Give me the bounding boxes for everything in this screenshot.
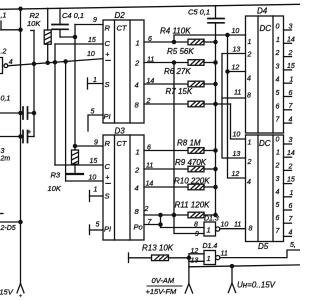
wire +15V vertical (x=20.5, rail to bottom arrow) (20, 9, 22, 284)
connector arrow 0V-AM/+15V-FM (185, 284, 192, 294)
svg-text:14: 14 (147, 78, 155, 85)
capacitor C1 0,1 (left edge) (0, 112, 23, 114)
svg-text:3: 3 (276, 63, 280, 70)
svg-text:+15V-FM: +15V-FM (146, 287, 178, 296)
svg-text:+: + (105, 52, 109, 59)
node R13/D1.4 inputs junction (187, 256, 190, 259)
svg-text:1: 1 (290, 77, 294, 84)
svg-text:1: 1 (276, 150, 280, 157)
svg-text:6: 6 (147, 145, 151, 152)
resistor R2 (47, 8, 49, 30)
svg-text:14: 14 (146, 181, 154, 188)
node Uh branch junction (230, 265, 233, 268)
svg-text:PI: PI (104, 112, 111, 121)
resistor R8 (188, 148, 204, 154)
gate D1.3 (204, 222, 216, 236)
node C4/reset junction (73, 35, 76, 38)
node C1 right lead junction (32, 111, 35, 114)
svg-text:8: 8 (247, 93, 251, 100)
svg-text:2: 2 (144, 206, 149, 213)
svg-text:2: 2 (247, 52, 252, 59)
D2 +/- pin tick (106, 59, 111, 61)
svg-text:R8 1M: R8 1M (177, 138, 201, 147)
IC D4 decoder box (246, 16, 284, 133)
svg-text:+15V: +15V (0, 288, 14, 297)
D5 output stubs pins 3,14,2,15,1,6,7,4 (284, 143, 292, 145)
wire jog to D4 input 1 (174, 35, 246, 42)
resistor R6 (188, 81, 204, 87)
svg-text:10: 10 (221, 221, 229, 228)
wire D2 pin S stub with T-bar (87, 78, 89, 89)
wire C4 to reset line (60, 36, 75, 38)
svg-text:R: R (105, 24, 111, 33)
svg-text:Uн=0..15V: Uн=0..15V (237, 281, 276, 290)
svg-text:13: 13 (233, 151, 241, 158)
wire D3 output 4 (pin 14) row (144, 186, 188, 188)
wire D3 pin +/- feed (66, 180, 103, 182)
connector arrow +15V (17, 284, 24, 293)
svg-text:2: 2 (134, 59, 140, 68)
svg-text:9: 9 (195, 231, 199, 238)
svg-text:10: 10 (232, 28, 240, 35)
label fragment tick at left edge (0, 213, 3, 215)
wire summing bus vertical (x=215.5) (215, 24, 217, 215)
resistor R11 (188, 212, 204, 218)
wire D1.2 output to D2 +/- pin (8, 59, 103, 66)
wire gate feed vertical (x=174) to D1.3 input 9 (174, 63, 204, 234)
svg-text:14: 14 (287, 150, 295, 157)
wire D2 pin R feed (75, 24, 103, 26)
resistor R4 (188, 39, 204, 45)
ground bar under R3 (67, 173, 83, 175)
svg-text:R13 10K: R13 10K (142, 243, 174, 252)
svg-text:10: 10 (87, 51, 95, 58)
node C1 left lead junction (19, 111, 22, 114)
svg-text:1: 1 (290, 190, 294, 197)
svg-text:2: 2 (134, 166, 140, 175)
svg-text:R4 110K: R4 110K (160, 27, 191, 36)
svg-text:2-D5: 2-D5 (0, 225, 16, 232)
svg-text:9: 9 (93, 17, 97, 24)
node D2.2/gate line junction (172, 61, 175, 64)
node rail/+15V junction (19, 7, 22, 10)
svg-text:C: C (105, 162, 111, 171)
gate D1.1 (cut off at left edge) (0, 21, 2, 30)
wire D2 pin C feed (55, 43, 103, 45)
svg-text:0: 0 (276, 137, 280, 144)
svg-text:S: S (105, 192, 110, 201)
inverter bubble of D1.2 (4, 64, 8, 68)
resistor R9 (188, 166, 204, 172)
svg-text:10: 10 (89, 175, 97, 182)
wire D1.3 output to D5 input 8 (220, 228, 246, 230)
wire fork to D1.4 input 12 (189, 254, 204, 258)
svg-text:14: 14 (287, 37, 295, 44)
svg-text:0,1: 0,1 (1, 96, 11, 103)
capacitor C4 (59, 8, 61, 24)
node out8 row crossing junction (172, 213, 175, 216)
svg-text:11: 11 (147, 57, 154, 64)
wire D2 output 1 (pin 6) row (144, 41, 188, 43)
wire D3 output Po (pin 7) (144, 224, 161, 226)
wire D1.4 output to right edge (pin 5) (220, 250, 300, 258)
wire D3 up/down vertical (x=65.6) (65, 62, 67, 182)
svg-text:0V-AM: 0V-AM (152, 276, 175, 285)
svg-text:2: 2 (288, 50, 293, 57)
node C3 left lead junction (19, 135, 22, 138)
svg-text:R3: R3 (51, 171, 61, 180)
wire to D1.3 input 8 (161, 215, 205, 228)
svg-text:4: 4 (276, 189, 280, 196)
wire D3 pin C feed (55, 164, 103, 166)
svg-text:R5 56K: R5 56K (167, 47, 194, 56)
svg-text:3: 3 (289, 137, 293, 144)
wire reset line vertical (x=75) (74, 25, 76, 151)
resistor R10 (188, 184, 204, 190)
svg-text:11: 11 (234, 221, 241, 228)
svg-text:11: 11 (146, 163, 153, 170)
svg-text:2m: 2m (0, 156, 10, 163)
svg-text:6: 6 (289, 90, 293, 97)
svg-text:C4 0,1: C4 0,1 (62, 11, 84, 20)
svg-text:3: 3 (276, 176, 280, 183)
svg-text:4: 4 (135, 81, 139, 90)
node bus/R11 junction (214, 213, 217, 216)
svg-text:4: 4 (247, 76, 251, 83)
wire "2-D5" power branch (0, 221, 21, 223)
wire D3 pin S stub with T-bar (89, 191, 91, 202)
svg-text:1: 1 (207, 254, 211, 263)
svg-text:5: 5 (276, 90, 280, 97)
svg-text:10K: 10K (27, 19, 41, 28)
svg-text:1: 1 (207, 226, 211, 235)
node bus/R9 junction (214, 167, 217, 170)
svg-text:12: 12 (191, 248, 199, 255)
wire D3 output 2 (pin 11) row (144, 168, 188, 170)
svg-text:R7 15K: R7 15K (166, 87, 193, 96)
svg-text:C: C (105, 39, 111, 48)
svg-text:Po: Po (134, 223, 143, 232)
node out8 row / in8 feed junction (159, 213, 162, 216)
svg-text:+: + (27, 129, 31, 136)
svg-text:6: 6 (148, 36, 152, 43)
svg-text:15: 15 (287, 63, 295, 70)
svg-text:13: 13 (233, 47, 241, 54)
connector arrow Uh output (228, 283, 235, 293)
svg-text:5: 5 (276, 202, 280, 209)
svg-text:0: 0 (276, 24, 280, 31)
wire D2 output 2 (pin 11) row (144, 62, 188, 64)
capacitor C5 (215, 6, 217, 18)
gate D1.4 (204, 251, 216, 265)
svg-text:2: 2 (146, 98, 151, 105)
wire D4 input 2 / D5 input 2 vertical (222, 54, 246, 159)
svg-text:D4: D4 (257, 7, 268, 16)
node feedback/output junction (32, 62, 35, 65)
D3 +/- pin tick (106, 182, 111, 184)
capacitor C3 electrolytic (left edge) (0, 136, 23, 138)
svg-text:4: 4 (247, 179, 251, 186)
+15V top rail wire (0, 4, 300, 9)
svg-text:10: 10 (233, 132, 241, 139)
wire D3 pin PI stub with T-bar (89, 225, 91, 235)
svg-text:1: 1 (136, 39, 140, 48)
resistor R13 (128, 253, 130, 263)
wire to bottom connector arrow (x=188.9) (188, 261, 190, 283)
gate D1.2 (cut off at left edge) (0, 58, 3, 74)
node on D1.2 output wire (64, 60, 67, 63)
svg-text:8: 8 (194, 221, 198, 228)
svg-text:DC: DC (260, 24, 272, 33)
wire D3 pin R feed (75, 145, 103, 147)
resistor R7 (188, 101, 204, 107)
wire D3 output 1 (pin 6) row (144, 150, 188, 152)
svg-text:6: 6 (276, 103, 280, 110)
svg-text:15: 15 (88, 37, 96, 44)
svg-text:4: 4 (289, 229, 293, 236)
node bus/R7 junction (214, 102, 217, 105)
svg-text:D5: D5 (258, 242, 269, 251)
wire D2 pin PI stub with corner (88, 115, 103, 131)
svg-text:D1.3: D1.3 (204, 215, 219, 222)
IC D5 decoder box (246, 135, 284, 242)
svg-text:1: 1 (248, 140, 252, 147)
node bus/R6 junction (214, 82, 217, 85)
svg-text:DC: DC (259, 139, 271, 148)
svg-text:12: 12 (232, 65, 240, 72)
svg-text:6: 6 (289, 203, 293, 210)
svg-text:4: 4 (289, 116, 293, 123)
svg-text:4: 4 (276, 77, 280, 84)
svg-text:15: 15 (287, 177, 295, 184)
node 2-D5 junction (19, 220, 22, 223)
svg-text:9: 9 (94, 140, 98, 147)
wire D2 output 4 (pin 14) row (144, 83, 188, 85)
node D2.1/D4 jog junction (172, 40, 175, 43)
wire D4 input 4 / D5 input 4 vertical (228, 35, 246, 178)
svg-text:5: 5 (96, 222, 100, 229)
svg-text:+: + (105, 175, 109, 182)
wire D2 output 8 (pin 2) row to D4 input 8 (144, 103, 188, 105)
svg-text:10K: 10K (48, 184, 62, 193)
wire down to Uh connector arrow (231, 266, 233, 283)
node D1.1 output junction (19, 28, 22, 31)
node D4 in4 junction (226, 70, 229, 73)
svg-text:2: 2 (275, 163, 280, 170)
svg-text:8: 8 (249, 226, 253, 233)
wire D5 input 1 vertical (231, 104, 246, 139)
node reset/D3.R junction (73, 144, 76, 147)
svg-text:1: 1 (276, 37, 280, 44)
svg-text:D2: D2 (115, 11, 126, 20)
wire fork to D1.4 input 13 (189, 258, 204, 262)
wire clock bus vertical (x=55) (54, 44, 56, 165)
svg-text:3: 3 (1, 148, 5, 155)
svg-text:R11 120K: R11 120K (175, 201, 211, 210)
wire output Uh long horizontal (189, 265, 300, 267)
svg-text:3: 3 (289, 23, 293, 30)
wire D1.1 output (1, 29, 21, 31)
svg-text:1: 1 (248, 39, 252, 46)
node jog/in4 vertical junction (226, 33, 229, 36)
node bus/R5 junction (214, 61, 217, 64)
node bus/R4 junction (214, 40, 217, 43)
svg-text:1: 1 (136, 148, 140, 157)
svg-text:5,: 5, (290, 242, 296, 249)
svg-text:CT: CT (117, 139, 128, 148)
svg-text:D1.4: D1.4 (203, 243, 218, 250)
node bus/R8 junction (214, 149, 217, 152)
svg-text:D3: D3 (115, 127, 126, 136)
svg-text:1: 1 (94, 187, 98, 194)
svg-text:.2: .2 (1, 49, 7, 56)
svg-text:2: 2 (247, 159, 252, 166)
svg-text:2: 2 (275, 50, 280, 57)
wire D4 input 8 stub (222, 97, 246, 99)
resistor R5 (188, 60, 204, 66)
svg-text:R6 27K: R6 27K (164, 67, 191, 76)
svg-text:13: 13 (191, 257, 199, 264)
svg-text:11: 11 (221, 251, 228, 258)
svg-text:R: R (105, 139, 111, 148)
svg-text:R10 220K: R10 220K (174, 176, 210, 185)
node Po junction (159, 223, 162, 226)
svg-text:,1: ,1 (1, 13, 7, 20)
svg-text:C5 0,1: C5 0,1 (188, 8, 210, 17)
node clock junction on D1.2 output (53, 61, 56, 64)
fraction bar of 0V-AM/+15V-FM label (147, 285, 182, 287)
wire D3 output 8 (pin 2) row (144, 214, 188, 216)
svg-text:6: 6 (276, 215, 280, 222)
D4 output stubs pins 3,14,2,15,1,6,7,4 (284, 29, 292, 31)
wire oscillator feedback vertical (x=34) (33, 31, 35, 137)
svg-text:12: 12 (232, 171, 240, 178)
svg-text:5: 5 (91, 109, 95, 116)
svg-text:4: 4 (135, 184, 139, 193)
svg-text:15: 15 (90, 158, 98, 165)
IC D3 counter box (103, 135, 144, 240)
IC D2 counter box (103, 20, 144, 123)
svg-text:1: 1 (93, 77, 97, 84)
svg-text:PI: PI (104, 225, 111, 234)
svg-text:2: 2 (288, 163, 293, 170)
resistor R3 (72, 150, 79, 164)
node R2/clock junction (46, 61, 49, 64)
svg-text:S: S (105, 80, 110, 89)
svg-text:4: 4 (9, 59, 13, 66)
node bus/R10 junction (214, 185, 217, 188)
svg-text:11: 11 (234, 90, 241, 97)
svg-text:CT: CT (117, 24, 128, 33)
svg-text:R9 470K: R9 470K (175, 158, 207, 167)
